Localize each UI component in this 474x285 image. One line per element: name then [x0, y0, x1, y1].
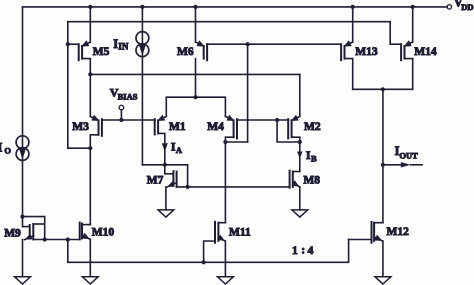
junction: M6 drain at cross-couple wire — [193, 95, 197, 99]
wire: M2 source from third rail — [299, 74, 301, 116]
transistor M1 (PMOS) — [155, 115, 167, 135]
ground below M9 — [15, 277, 31, 284]
wire: M5 drain to third rail — [82, 59, 90, 75]
label M11 — [229, 227, 251, 239]
wire: M8 source with arrow — [292, 180, 300, 210]
label VDD — [454, 0, 474, 12]
svg-text:I: I — [0, 140, 3, 154]
wire: M13/M14 drain join — [353, 88, 413, 90]
wire: IB branch down to M8 drain — [297, 142, 303, 172]
wire: left branch from VDD rail down to Io and M9 gate — [22, 7, 24, 227]
wire: M4/M2 gate line — [237, 119, 289, 121]
wire: link from second rail to M3 drain — [68, 147, 91, 149]
label M1 — [169, 121, 186, 133]
label M13 — [355, 46, 378, 58]
wire: M6 source from VDD rail — [195, 7, 197, 42]
label M6 — [177, 46, 194, 58]
transistor M4 (PMOS) — [225, 115, 237, 139]
ground below M8 — [292, 210, 308, 217]
wire: output branch down to M12 drain — [382, 89, 384, 222]
wire: node A horizontal (Iin, M1 drain, M7) — [142, 164, 187, 166]
wire: M11 gate lead — [204, 241, 215, 262]
transistor M13 (PMOS) — [341, 40, 353, 60]
svg-text:M7: M7 — [147, 175, 164, 187]
wire: M14 gate lead from second rail — [390, 43, 401, 45]
label M10 — [92, 227, 115, 239]
wire: node A wrap to M7 drain side — [187, 165, 189, 187]
label M14 — [414, 46, 437, 58]
junction: third rail at M5 drain — [88, 72, 92, 76]
wire: M8 drain stub — [293, 171, 300, 173]
label Io — [0, 140, 11, 155]
svg-text:M10: M10 — [92, 227, 115, 239]
wire: M3 source from third rail — [89, 74, 91, 116]
junction: M11 gate tap on lower rail — [202, 260, 206, 264]
svg-text:M1: M1 — [169, 121, 186, 133]
junction: bus at M9 drain — [43, 237, 47, 241]
wire: M6 drain down to cross-couple node — [195, 59, 197, 98]
wire: Iin branch from VDD rail down to node A — [141, 7, 143, 165]
label M12 — [387, 226, 410, 238]
svg-text:M2: M2 — [304, 121, 321, 133]
wire: M2 gate wrap to drain — [277, 120, 300, 142]
label M4 — [207, 121, 224, 133]
ground below M11 — [218, 277, 234, 284]
label IA — [171, 139, 183, 155]
junction: M2 drain IB node — [298, 140, 302, 144]
junction: node A — [163, 163, 167, 167]
wire: M12 source with arrow — [374, 235, 383, 277]
transistor M12 (NMOS) — [372, 222, 375, 243]
junction: M7 drain on gate wire — [186, 185, 190, 189]
label M7 — [147, 175, 164, 187]
svg-text:DD: DD — [461, 2, 473, 12]
transistor M8 (NMOS) — [290, 171, 293, 188]
wire: M14 source from VDD rail — [412, 7, 414, 42]
svg-text::: : — [301, 245, 305, 257]
transistor M3 (PMOS) — [90, 115, 102, 136]
transistor M5 (PMOS) — [79, 40, 91, 60]
wire: M6 gate vertical branch — [247, 44, 249, 142]
junction: M2 gate wrap tap — [275, 118, 279, 122]
wire: lower gate rail to M11/M12 gates — [68, 240, 349, 263]
label M9 — [4, 228, 21, 240]
transistor M11 (NMOS) — [215, 222, 218, 243]
svg-text:4: 4 — [308, 245, 314, 257]
junction: M4 drain node — [223, 140, 227, 144]
junction: M6 gate line tap — [246, 42, 250, 46]
wire: M14 drain — [405, 59, 413, 90]
wire: M13 source from VDD rail — [352, 7, 354, 42]
wire: M4 drain down to M11 drain — [224, 142, 226, 223]
wire: VDD top rail — [23, 6, 448, 8]
wire: M9 drain stub — [33, 223, 44, 225]
junctions on VDD rail — [88, 5, 415, 9]
wire: M12 drain stub — [374, 222, 383, 224]
junction: M9 drain tap on left branch — [20, 215, 24, 219]
transistor M7 (NMOS) — [173, 171, 176, 187]
svg-text:M12: M12 — [387, 226, 410, 238]
transistor M10 (NMOS) — [80, 223, 82, 240]
node VBIAS terminal — [119, 105, 124, 120]
svg-text:B: B — [311, 154, 317, 164]
transistor M14 (PMOS) — [401, 40, 413, 60]
wire: M5 source from VDD rail — [89, 7, 91, 42]
wire: M2 drain wrap — [292, 137, 300, 142]
ground below M12 — [375, 277, 391, 284]
wire: M6 gate line to M13 gate — [207, 43, 341, 45]
svg-text:M3: M3 — [72, 121, 89, 133]
svg-text:A: A — [176, 145, 183, 155]
label Iin — [113, 37, 129, 51]
wire: M7 gate lead — [165, 165, 174, 174]
ground below M10 — [82, 277, 98, 284]
wire: IOUT lead with arrow — [383, 162, 422, 167]
svg-text:BIAS: BIAS — [118, 91, 138, 101]
wire: M4 drain wrap — [225, 137, 233, 142]
svg-text:M8: M8 — [303, 174, 320, 186]
svg-text:M4: M4 — [207, 121, 224, 133]
junction: drains join to output branch — [381, 87, 385, 91]
label IB — [306, 148, 317, 164]
label IOUT — [395, 144, 419, 160]
junction: M5 gate tap on second rail branch — [66, 42, 70, 46]
label M3 — [72, 121, 89, 133]
wire: M1/M4 sources to M6 drain — [166, 97, 225, 116]
label M8 — [303, 174, 320, 186]
label M5 — [93, 46, 110, 58]
svg-text:IN: IN — [118, 42, 129, 52]
svg-text:M13: M13 — [355, 46, 378, 58]
current source Io — [16, 136, 29, 161]
svg-text:M5: M5 — [93, 46, 110, 58]
wire: M10 drain stub — [82, 224, 90, 226]
wire: M1 drain with IA current arrow — [158, 133, 168, 164]
wire: M7/M8 gate-drain wire — [177, 186, 290, 188]
svg-text:1: 1 — [292, 245, 298, 257]
junction: M3 drain and second-rail link — [88, 146, 92, 150]
wire: M9 source with arrow — [23, 234, 34, 277]
junction: VBIAS tap on gate line — [119, 118, 123, 122]
svg-text:M6: M6 — [177, 46, 194, 58]
wire: mirror gate bus M9 to M10 — [33, 239, 80, 241]
svg-text:M11: M11 — [229, 227, 251, 239]
wire: M3 drain wrap down to M10 drain — [90, 135, 98, 225]
node VDD terminal circle — [447, 5, 451, 9]
transistor M2 (PMOS) — [288, 115, 300, 139]
wire: third rail (M5 drain to M2 source) — [90, 73, 299, 75]
wire: M11 source with arrow — [217, 235, 225, 277]
svg-text:M9: M9 — [4, 228, 21, 240]
wire: M11 drain stub — [218, 222, 225, 224]
junction: IOUT tap — [381, 163, 385, 167]
wire: M12 gate lead — [349, 239, 372, 241]
label M2 — [304, 121, 321, 133]
wire: M10 source with arrow — [82, 233, 91, 277]
svg-text:M14: M14 — [414, 46, 437, 58]
label ratio 1:4 — [292, 245, 314, 257]
wire: M9 gate lead — [23, 226, 30, 228]
label VBIAS — [110, 86, 138, 102]
svg-text:OUT: OUT — [399, 150, 418, 160]
wire: second rail (M5 gate to M14 gate) — [68, 22, 390, 149]
current source Iin — [136, 32, 149, 57]
wire: M7 source with arrow — [166, 181, 177, 210]
transistor M6 (PMOS) — [196, 40, 208, 60]
wire: M13 drain — [345, 59, 353, 90]
wire: M4 drain to M6 gate branch — [225, 141, 247, 143]
wire: M9 drain wrap — [23, 217, 45, 240]
ground below M7 — [158, 210, 174, 217]
wire: M5 gate lead — [68, 43, 79, 45]
wire: M3/M1 gate line (VBIAS net) — [102, 119, 155, 121]
svg-text:O: O — [4, 145, 11, 155]
junction: bus tap to lower rail — [66, 237, 70, 241]
transistor M9 (NMOS) — [30, 224, 34, 240]
